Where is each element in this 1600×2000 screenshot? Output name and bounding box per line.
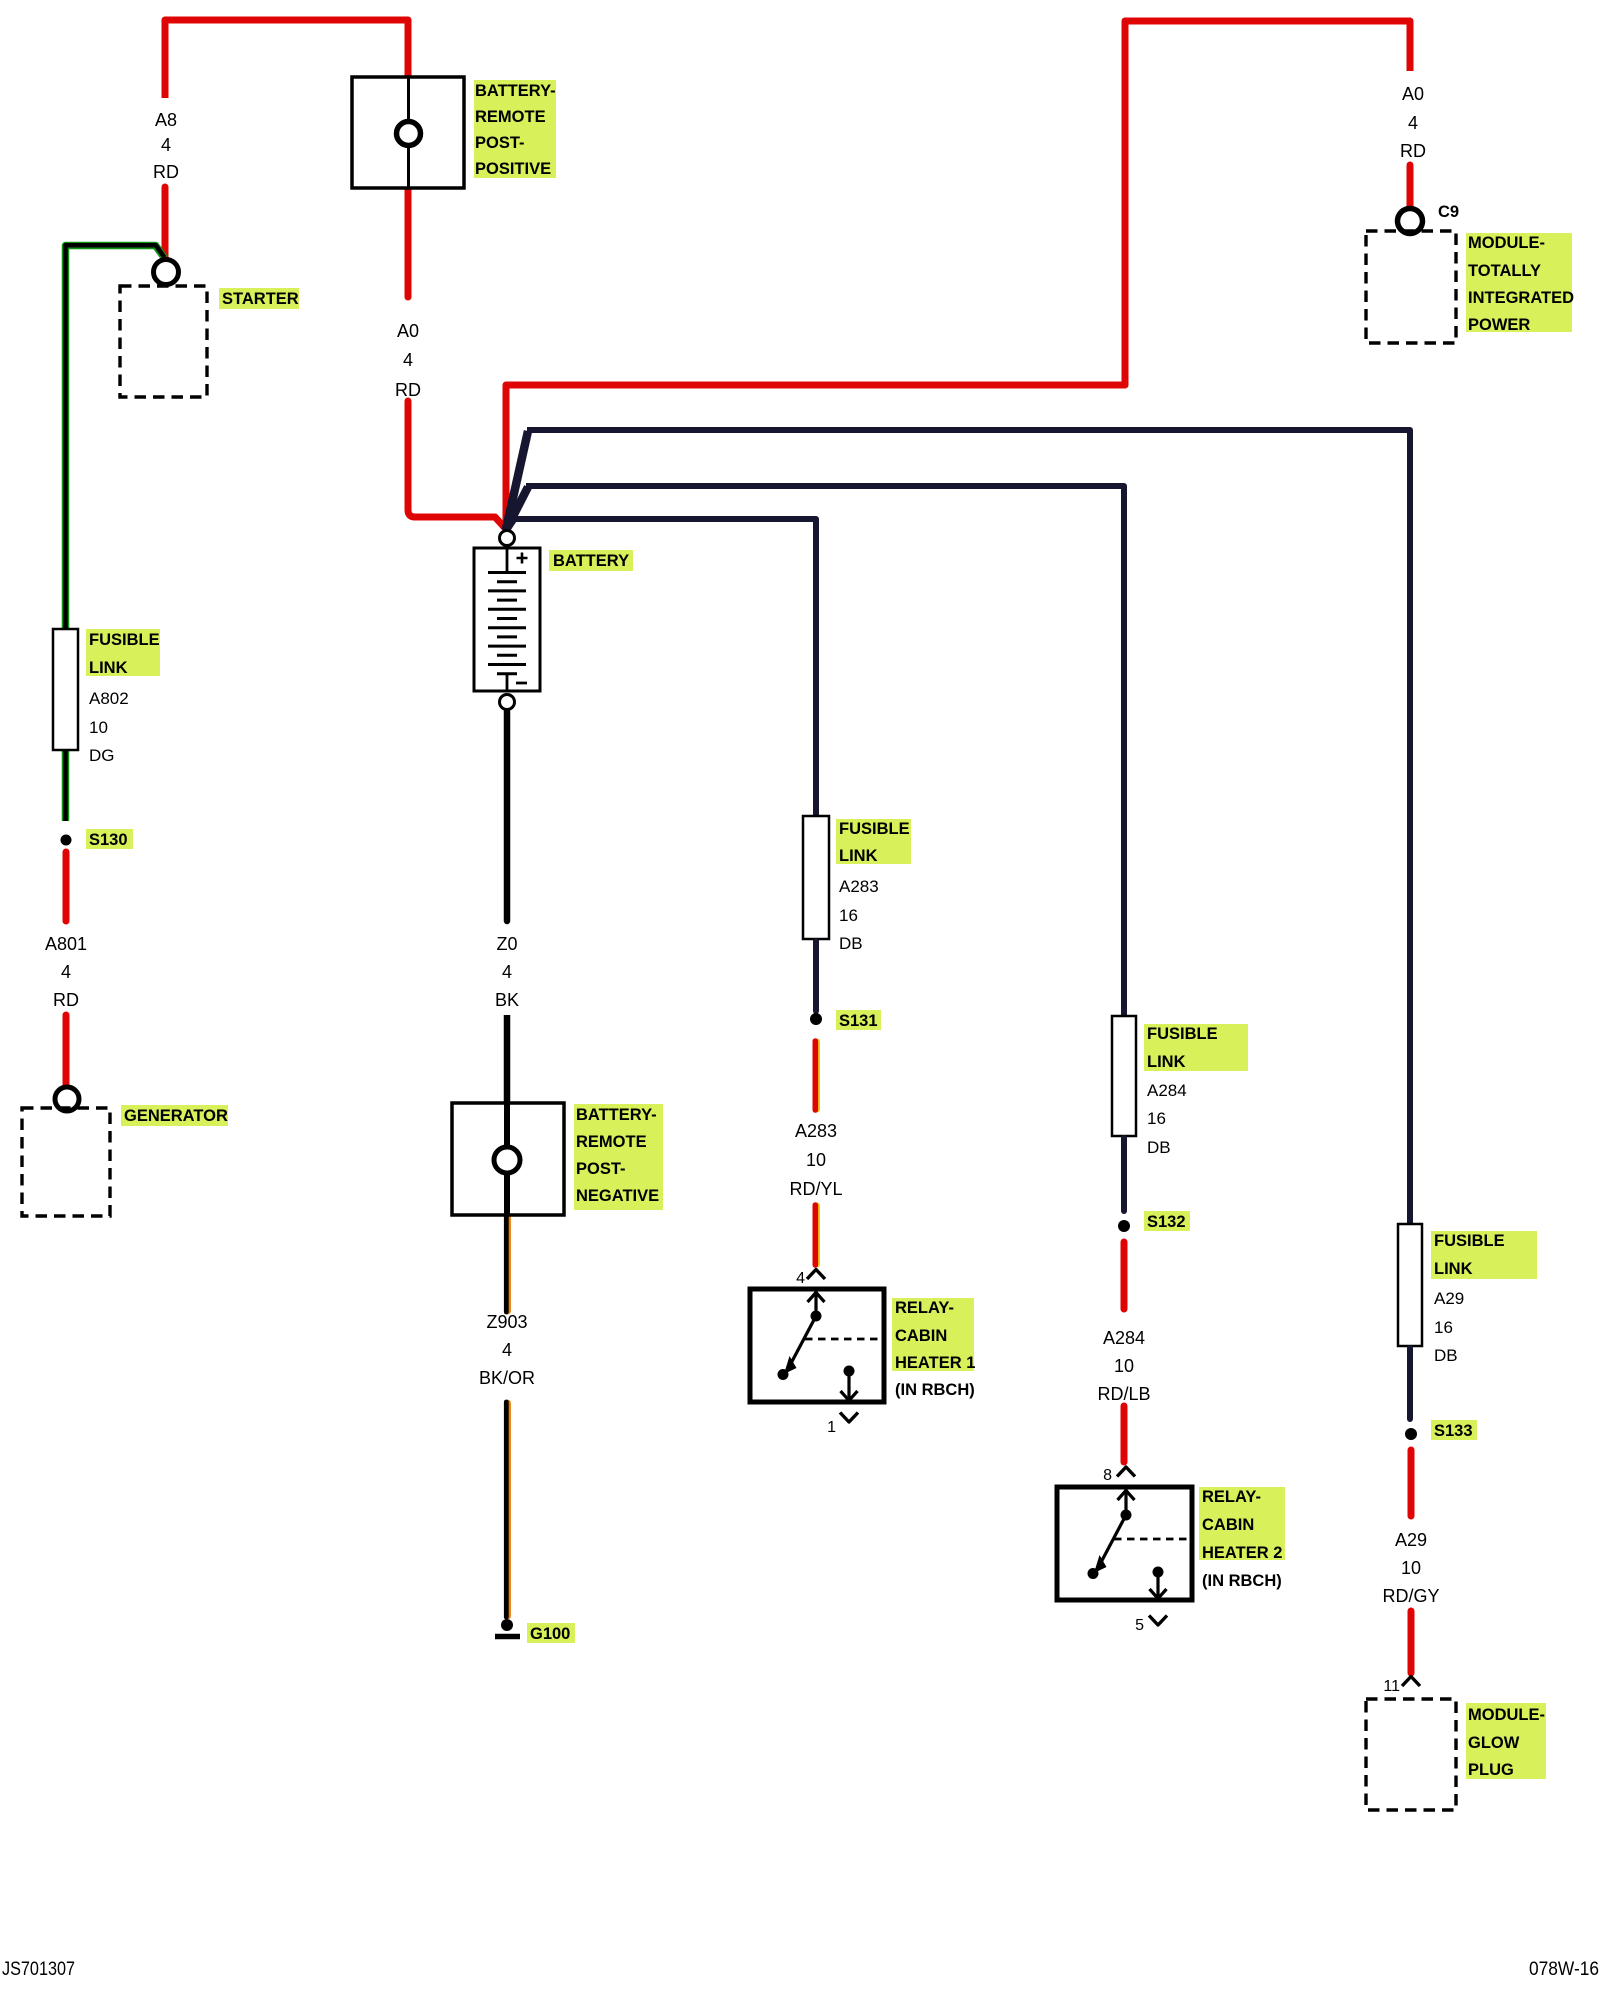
svg-text:A29: A29	[1434, 1289, 1464, 1308]
starter dashed box	[120, 286, 207, 397]
wire A8 4 RD: starter to battery-remote-post-positive (top-left red)	[165, 20, 408, 98]
svg-text:FUSIBLE: FUSIBLE	[1147, 1025, 1218, 1043]
svg-text:CABIN: CABIN	[1202, 1516, 1254, 1534]
svg-text:4: 4	[403, 350, 413, 370]
label GENERATOR	[121, 1105, 228, 1126]
wire: fusible link A283 to S131 (dark blue)	[813, 941, 819, 1011]
wire A801 lower segment into generator ring	[63, 1015, 70, 1086]
relay 2 pin 8 terminal	[1124, 1489, 1127, 1515]
svg-text:LINK: LINK	[839, 847, 878, 865]
wire A283 lower segment to relay pin 4	[813, 1206, 820, 1264]
wire: battery node to fusible link A283 (dark blue, near)	[505, 519, 513, 531]
fusible link A802 box	[53, 629, 78, 750]
svg-text:RELAY-: RELAY-	[1202, 1488, 1261, 1506]
wire: battery node to fusible link A284 (dark blue, middle)	[506, 487, 528, 530]
label RELAY-CABIN HEATER 2 (IN RBCH)	[1199, 1487, 1285, 1560]
wire A0 4 RD feed: battery node to TIPM (long red run)	[506, 21, 1410, 527]
junction wedge at battery positive node	[502, 505, 519, 534]
relay 2 switch arm	[1098, 1515, 1126, 1568]
svg-text:8: 8	[1103, 1467, 1112, 1484]
svg-text:A283: A283	[795, 1121, 837, 1141]
svg-text:POST-: POST-	[475, 134, 525, 152]
svg-text:(IN RBCH): (IN RBCH)	[1202, 1572, 1282, 1590]
svg-text:S132: S132	[1147, 1213, 1186, 1231]
svg-text:A0: A0	[397, 321, 419, 341]
svg-text:16: 16	[839, 906, 858, 925]
svg-text:10: 10	[806, 1150, 826, 1170]
wire Z903 lower segment to G100	[504, 1403, 511, 1616]
wire: battery node to fusible link A29 (dark blue, far right)	[506, 431, 528, 529]
wire A8 lower segment into starter ring	[162, 187, 169, 259]
wire A29 lower segment to glow plug module pin 11	[1408, 1611, 1415, 1673]
svg-text:BATTERY-: BATTERY-	[475, 82, 556, 100]
svg-text:GLOW: GLOW	[1468, 1734, 1520, 1752]
svg-text:10: 10	[89, 718, 108, 737]
svg-text:RD/GY: RD/GY	[1382, 1586, 1439, 1606]
generator ring terminal	[55, 1087, 79, 1111]
svg-text:A283: A283	[839, 877, 879, 896]
svg-text:REMOTE: REMOTE	[475, 108, 546, 126]
svg-text:RELAY-: RELAY-	[895, 1299, 954, 1317]
pin 4 connector arrow	[807, 1270, 825, 1280]
relay 1 dashed divider	[805, 1338, 884, 1341]
wire: fusible link A284 to S132 (dark blue)	[1121, 1138, 1127, 1211]
svg-text:LINK: LINK	[1434, 1260, 1473, 1278]
svg-text:A0: A0	[1402, 84, 1424, 104]
pin 11 connector arrow	[1402, 1677, 1420, 1687]
svg-text:STARTER: STARTER	[222, 290, 299, 308]
connector C9 ring	[1398, 209, 1423, 234]
wire A801 4 RD: S130 to generator (upper)	[63, 852, 70, 921]
svg-text:NEGATIVE: NEGATIVE	[576, 1187, 659, 1205]
svg-text:REMOTE: REMOTE	[576, 1133, 647, 1151]
fusible link A284 box	[1112, 1016, 1136, 1136]
svg-text:A284: A284	[1147, 1081, 1187, 1100]
svg-text:S133: S133	[1434, 1422, 1473, 1440]
svg-text:A801: A801	[45, 934, 87, 954]
fusible link A29 box	[1398, 1224, 1422, 1346]
svg-text:GENERATOR: GENERATOR	[124, 1107, 228, 1125]
wire A0 segment into C9	[1407, 165, 1414, 207]
svg-text:Z903: Z903	[486, 1312, 527, 1332]
svg-text:DB: DB	[1434, 1346, 1458, 1365]
label MODULE-TOTALLY INTEGRATED POWER	[1466, 233, 1572, 332]
relay 2 pin 5 terminal	[1153, 1567, 1164, 1578]
wire/green: fusible link A802 to S130	[62, 750, 70, 821]
splice S131	[810, 1013, 822, 1025]
svg-text:JS701307: JS701307	[2, 1959, 75, 1980]
svg-text:FUSIBLE: FUSIBLE	[1434, 1232, 1505, 1250]
ground G100	[501, 1619, 513, 1631]
starter ring terminal	[154, 260, 179, 285]
relay 2 dashed divider	[1114, 1538, 1192, 1541]
label BATTERY-REMOTE POST-NEGATIVE	[574, 1104, 663, 1210]
svg-text:BK: BK	[495, 990, 519, 1010]
svg-text:CABIN: CABIN	[895, 1327, 947, 1345]
svg-text:DB: DB	[839, 934, 863, 953]
svg-text:POWER: POWER	[1468, 316, 1530, 334]
svg-text:FUSIBLE: FUSIBLE	[89, 631, 160, 649]
wire Z0 4 BK: battery negative down (upper)	[504, 711, 511, 921]
wire/green: starter to fusible link A802	[66, 246, 165, 630]
svg-text:RD: RD	[1400, 141, 1426, 161]
svg-text:G100: G100	[530, 1625, 570, 1643]
wire A284 lower segment to relay pin 8	[1121, 1406, 1128, 1462]
svg-text:FUSIBLE: FUSIBLE	[839, 820, 910, 838]
module glow plug dashed box	[1366, 1699, 1456, 1810]
label RELAY-CABIN HEATER 1 (IN RBCH)	[892, 1298, 974, 1371]
battery positive ring terminal	[500, 531, 515, 546]
pin 5 connector arrow	[1149, 1616, 1167, 1626]
svg-text:RD: RD	[53, 990, 79, 1010]
label BATTERY	[549, 550, 633, 571]
svg-text:RD: RD	[153, 162, 179, 182]
label FUSIBLE LINK (A284)	[1144, 1024, 1248, 1071]
battery-remote post negative box	[452, 1103, 564, 1215]
battery-remote post negative ring terminal	[494, 1147, 520, 1173]
wire A0 4 RD: battery-remote-post-positive down (upper segment)	[405, 188, 412, 297]
module TIPM dashed box	[1366, 231, 1456, 343]
splice S133	[1405, 1428, 1417, 1440]
battery internal plates	[506, 549, 509, 573]
svg-text:C9: C9	[1438, 203, 1459, 221]
svg-text:078W-16: 078W-16	[1529, 1959, 1599, 1980]
svg-text:TOTALLY: TOTALLY	[1468, 262, 1541, 280]
svg-text:10: 10	[1114, 1356, 1134, 1376]
svg-text:LINK: LINK	[1147, 1053, 1186, 1071]
svg-text:POSITIVE: POSITIVE	[475, 160, 551, 178]
wire Z0 lower segment into battery-remote-post-negative	[504, 1015, 511, 1103]
svg-text:1: 1	[827, 1419, 836, 1436]
svg-text:(IN RBCH): (IN RBCH)	[895, 1381, 975, 1399]
label FUSIBLE LINK (A29)	[1431, 1231, 1537, 1279]
svg-text:A29: A29	[1395, 1530, 1427, 1550]
relay cabin heater 2 box	[1057, 1487, 1192, 1600]
svg-text:BK/OR: BK/OR	[479, 1368, 535, 1388]
fusible link A283 box	[803, 816, 829, 939]
relay 1 pin 1 terminal	[844, 1366, 855, 1377]
svg-text:POST-: POST-	[576, 1160, 626, 1178]
svg-text:RD/LB: RD/LB	[1097, 1384, 1150, 1404]
svg-text:LINK: LINK	[89, 659, 128, 677]
svg-text:RD/YL: RD/YL	[789, 1179, 842, 1199]
label FUSIBLE LINK (A802)	[86, 629, 160, 676]
wire A283 10 RD/YL: S131 down (upper)	[813, 1042, 820, 1109]
svg-text:HEATER 1: HEATER 1	[895, 1354, 975, 1372]
pin 8 connector arrow	[1117, 1467, 1135, 1477]
svg-text:BATTERY-: BATTERY-	[576, 1106, 657, 1124]
label FUSIBLE LINK (A283)	[836, 819, 911, 864]
svg-text:S130: S130	[89, 831, 128, 849]
svg-text:MODULE-: MODULE-	[1468, 1706, 1545, 1724]
svg-text:A284: A284	[1103, 1328, 1145, 1348]
relay cabin heater 1 box	[750, 1289, 884, 1402]
relay 1 pin 4 terminal	[814, 1291, 817, 1316]
splice S130	[61, 835, 72, 846]
svg-text:11: 11	[1383, 1678, 1400, 1695]
label BATTERY-REMOTE POST-POSITIVE	[474, 80, 556, 178]
svg-text:S131: S131	[839, 1012, 878, 1030]
wire A0 lower segment to battery positive node	[408, 401, 505, 528]
svg-text:4: 4	[796, 1270, 805, 1287]
svg-text:HEATER 2: HEATER 2	[1202, 1544, 1282, 1562]
svg-text:DG: DG	[89, 746, 115, 765]
svg-text:16: 16	[1147, 1109, 1166, 1128]
svg-text:5: 5	[1135, 1617, 1144, 1634]
wire A284 10 RD/LB: S132 down (upper)	[1121, 1242, 1128, 1309]
svg-text:4: 4	[1408, 113, 1418, 133]
battery-remote post positive box	[352, 77, 464, 188]
wire Z903 4 BK/OR: remote post negative down (upper)	[504, 1217, 511, 1311]
svg-text:PLUG: PLUG	[1468, 1761, 1514, 1779]
svg-text:RD: RD	[395, 380, 421, 400]
wire: fusible link A29 to S133 (dark blue)	[1407, 1348, 1413, 1419]
battery-remote post positive ring terminal	[397, 122, 421, 146]
svg-text:4: 4	[161, 135, 171, 155]
svg-text:10: 10	[1401, 1558, 1421, 1578]
svg-text:Z0: Z0	[496, 934, 517, 954]
svg-text:4: 4	[502, 962, 512, 982]
splice S132	[1118, 1220, 1130, 1232]
svg-text:4: 4	[502, 1340, 512, 1360]
svg-text:16: 16	[1434, 1318, 1453, 1337]
svg-text:A8: A8	[155, 110, 177, 130]
battery box	[474, 548, 540, 691]
battery plus sign	[517, 553, 528, 564]
svg-text:4: 4	[61, 962, 71, 982]
svg-text:DB: DB	[1147, 1138, 1171, 1157]
label MODULE-GLOW PLUG	[1466, 1703, 1546, 1779]
wire A29 10 RD/GY: S133 down (upper)	[1408, 1450, 1415, 1516]
generator dashed box	[22, 1108, 110, 1216]
relay 1 switch arm	[788, 1316, 816, 1369]
svg-text:BATTERY: BATTERY	[553, 552, 629, 570]
svg-text:A802: A802	[89, 689, 129, 708]
svg-text:MODULE-: MODULE-	[1468, 234, 1545, 252]
battery negative ring terminal	[500, 695, 515, 710]
svg-text:INTEGRATED: INTEGRATED	[1468, 289, 1574, 307]
pin 1 connector arrow	[840, 1413, 858, 1423]
label STARTER	[219, 288, 299, 309]
